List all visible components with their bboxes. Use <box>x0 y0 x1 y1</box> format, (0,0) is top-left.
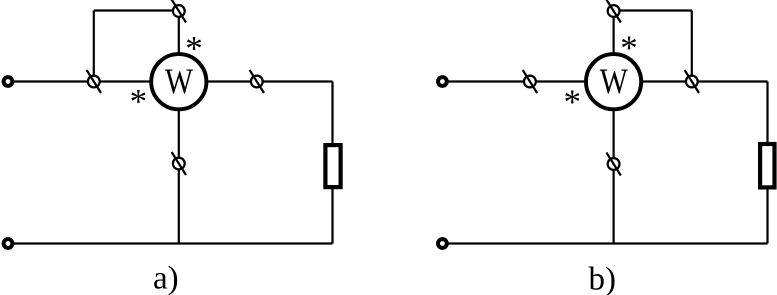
wire: bottom rail (circuit b) <box>448 242 768 244</box>
wire: W bottom lead down to bottom rail (circuit b) <box>612 102 614 244</box>
wire: B1 to wattmeter current coil (left run, circuit b) <box>448 80 595 82</box>
terminal B2 (lower line input, circuit b) <box>438 239 447 248</box>
svg-text:*: * <box>130 82 148 121</box>
slashed terminal, top potential lead (circuit a) <box>172 0 186 23</box>
wire: wattmeter right side to load branch corner (circuit a) <box>198 80 333 82</box>
load resistor (circuit a) <box>325 145 340 187</box>
wire: A1 to wattmeter current coil (left run, circuit a) <box>14 80 161 82</box>
slashed terminal, bottom potential lead (circuit a) <box>172 152 186 175</box>
terminal A1 (upper line input, circuit a) <box>4 77 13 86</box>
slashed terminal, right of W (circuit b) <box>685 70 699 93</box>
slashed terminal, top potential lead (circuit b) <box>606 0 620 23</box>
load resistor (circuit b) <box>760 144 774 187</box>
wattmeter W (circuit a) <box>151 54 206 109</box>
polarity asterisk, current coil (circuit a) <box>130 82 148 121</box>
wire: top slashed terminal down to W top (circuit a) <box>178 11 180 63</box>
wire: wattmeter right side to load branch corner (circuit b) <box>632 80 768 82</box>
wire: right riser down to node right of W (circuit b) <box>691 11 693 82</box>
polarity asterisk, potential coil (circuit a) <box>185 29 203 68</box>
slashed terminal, right of W (circuit a) <box>250 70 264 93</box>
wire: load branch vertical (circuit b) <box>766 82 768 244</box>
polarity asterisk, potential coil (circuit b) <box>620 28 638 67</box>
polarity asterisk, current coil (circuit b) <box>563 82 581 121</box>
wire: W top up to slashed terminal (circuit b) <box>612 11 614 63</box>
terminal A2 (lower line input, circuit a) <box>4 239 13 248</box>
caption a) <box>153 261 179 295</box>
wire: top horizontal run to slashed terminal (circuit a) <box>94 9 179 11</box>
svg-text:*: * <box>620 28 638 67</box>
wire: W bottom lead down to bottom rail (circuit a) <box>178 102 180 244</box>
slashed terminal, series left of W (circuit a) <box>87 70 101 93</box>
slashed terminal, bottom potential lead (circuit b) <box>606 153 620 176</box>
wire: potential tap riser above left node (circuit a) <box>93 11 95 82</box>
slashed terminal, series left of W (circuit b) <box>523 70 537 93</box>
svg-text:a): a) <box>153 261 179 295</box>
caption b) <box>589 262 617 295</box>
svg-text:*: * <box>563 82 581 121</box>
wire: bottom rail (circuit a) <box>14 242 333 244</box>
wattmeter W (circuit b) <box>586 54 641 109</box>
svg-text:b): b) <box>589 262 617 295</box>
wire: top horizontal run to right riser (circuit b) <box>614 9 692 11</box>
wire: load branch vertical (circuit a) <box>331 82 333 244</box>
svg-text:*: * <box>185 29 203 68</box>
terminal B1 (upper line input, circuit b) <box>438 77 447 86</box>
